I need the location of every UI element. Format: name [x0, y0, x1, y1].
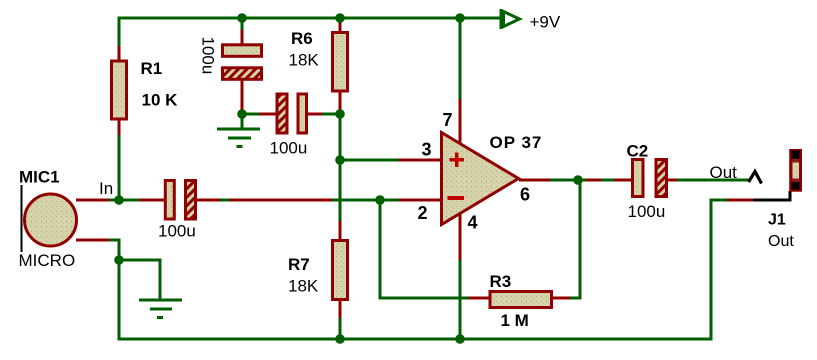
- svg-text:10 K: 10 K: [142, 91, 179, 110]
- svg-text:OP 37: OP 37: [490, 133, 543, 152]
- svg-text:MIC1: MIC1: [19, 168, 60, 187]
- svg-text:R7: R7: [288, 255, 310, 274]
- svg-text:R1: R1: [141, 59, 163, 78]
- svg-text:6: 6: [520, 185, 530, 205]
- svg-text:R6: R6: [291, 29, 313, 48]
- svg-text:100u: 100u: [270, 139, 308, 158]
- svg-text:100u: 100u: [628, 202, 666, 221]
- svg-text:100u: 100u: [158, 222, 196, 241]
- svg-text:MICRO: MICRO: [19, 251, 76, 270]
- svg-text:7: 7: [443, 110, 453, 130]
- svg-text:Out: Out: [710, 163, 738, 182]
- svg-text:2: 2: [418, 203, 428, 223]
- svg-text:R3: R3: [490, 272, 512, 291]
- svg-text:3: 3: [422, 140, 432, 160]
- svg-text:In: In: [99, 179, 113, 198]
- svg-text:+9V: +9V: [530, 13, 561, 32]
- svg-text:4: 4: [468, 213, 478, 233]
- svg-text:18K: 18K: [289, 51, 320, 70]
- svg-text:Out: Out: [768, 233, 794, 250]
- svg-text:18K: 18K: [288, 277, 319, 296]
- svg-text:100u: 100u: [199, 37, 218, 75]
- svg-text:C2: C2: [627, 142, 649, 161]
- svg-text:1 M: 1 M: [501, 311, 529, 330]
- svg-text:J1: J1: [768, 212, 786, 229]
